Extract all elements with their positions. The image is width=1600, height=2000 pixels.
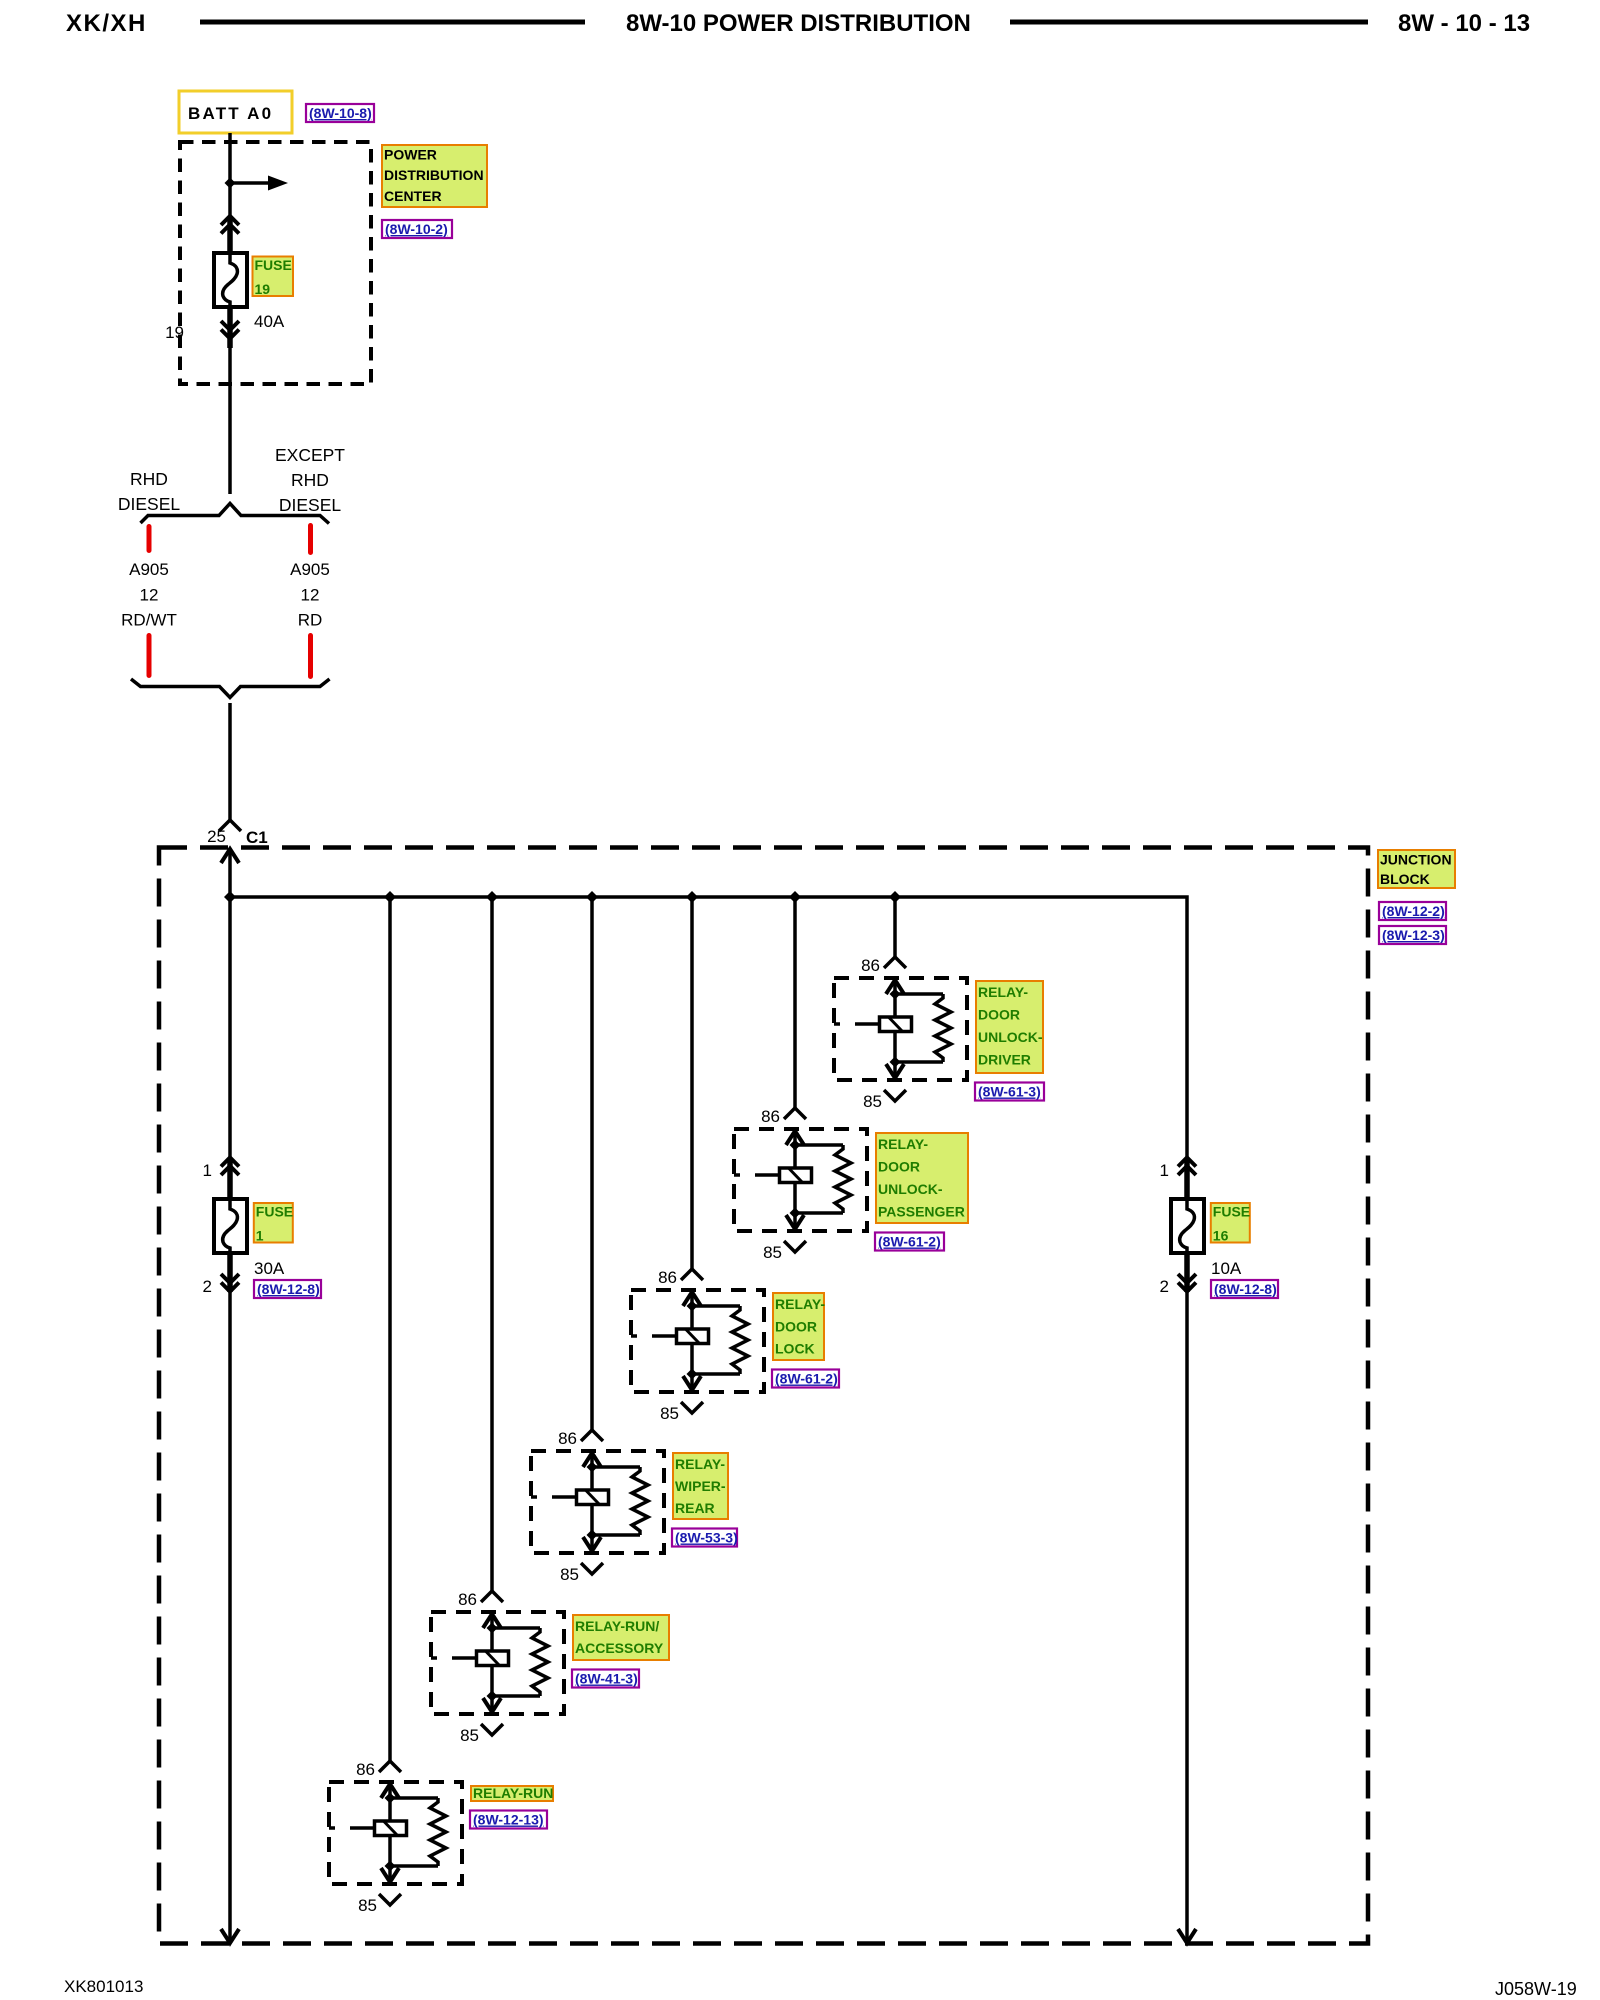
wire A905 12 RD labels [290, 560, 330, 630]
svg-text:A905: A905 [129, 560, 169, 579]
header title left [66, 10, 147, 37]
svg-text:BLOCK: BLOCK [1380, 871, 1430, 887]
svg-text:(8W-41-3): (8W-41-3) [575, 1671, 638, 1687]
wire left branch bottom arrow [221, 1929, 239, 1943]
svg-text:XK801013: XK801013 [64, 1977, 143, 1996]
connector pin 86 of relay K DOOR LOCK [658, 1268, 703, 1287]
label relay K RUN [471, 1785, 553, 1801]
link 8W-12-2 [1379, 902, 1446, 920]
svg-text:12: 12 [140, 586, 159, 605]
svg-text:8W-10 POWER DISTRIBUTION: 8W-10 POWER DISTRIBUTION [626, 10, 971, 37]
wire mark red right upper [308, 523, 313, 555]
svg-text:(8W-61-2): (8W-61-2) [775, 1371, 838, 1387]
label relay K DOOR LOCK [773, 1293, 825, 1360]
svg-text:30A: 30A [254, 1259, 285, 1278]
svg-text:25: 25 [207, 827, 226, 846]
wire bus [230, 897, 1187, 1943]
svg-text:86: 86 [458, 1590, 477, 1609]
svg-text:86: 86 [558, 1429, 577, 1448]
node BATT A0 [179, 91, 292, 133]
connector pin 86 of relay K WIPER REAR [558, 1429, 603, 1448]
label RHD DIESEL [118, 469, 181, 514]
footer drawing code [1495, 1979, 1577, 1999]
wire bus drop to relay K RUN/ACCESSORY [490, 897, 494, 1591]
label relay K RUN/ACCESSORY [573, 1615, 669, 1660]
svg-text:DOOR: DOOR [978, 1007, 1020, 1023]
wire bus drop to relay K DOOR LOCK [690, 897, 694, 1269]
fuse F1 thick lead [227, 1158, 233, 1292]
connector C1 pin 25 [207, 820, 268, 847]
svg-text:DOOR: DOOR [775, 1318, 817, 1334]
svg-text:86: 86 [658, 1268, 677, 1287]
svg-text:EXCEPT: EXCEPT [275, 445, 345, 465]
svg-text:(8W-53-3): (8W-53-3) [675, 1530, 738, 1546]
svg-text:J058W-19: J058W-19 [1495, 1979, 1577, 1999]
label relay K WIPER REAR [673, 1453, 728, 1519]
connector pin 85 of relay K RUN/ACCESSORY [460, 1724, 503, 1745]
relay K UNLOCK DRIVER [834, 978, 967, 1080]
svg-text:UNLOCK-: UNLOCK- [878, 1181, 943, 1197]
fuse F19 [214, 253, 247, 307]
svg-text:FUSE: FUSE [256, 1204, 293, 1220]
svg-text:(8W-12-8): (8W-12-8) [257, 1281, 320, 1297]
fuse F16 pin 2 chevrons [1160, 1274, 1196, 1296]
svg-text:86: 86 [761, 1107, 780, 1126]
link (8W-61-2) of relay K UNLOCK PASSENGER [875, 1233, 944, 1251]
svg-text:C1: C1 [246, 828, 268, 847]
svg-text:RELAY-: RELAY- [675, 1456, 725, 1472]
label JUNCTION BLOCK [1378, 850, 1455, 888]
svg-text:2: 2 [203, 1277, 212, 1296]
pin 19 [165, 323, 184, 342]
svg-text:(8W-61-2): (8W-61-2) [878, 1234, 941, 1250]
wire bus drop to relay K WIPER REAR [590, 897, 594, 1430]
label FUSE 1 [254, 1203, 293, 1244]
connector pin 85 of relay K UNLOCK DRIVER [863, 1090, 906, 1111]
node junction dot PDC [225, 178, 236, 189]
label FUSE 16 [1211, 1203, 1250, 1244]
header page number [1398, 10, 1530, 37]
svg-text:85: 85 [660, 1404, 679, 1423]
value 30A [254, 1259, 285, 1278]
fuse F19 pin chevrons bottom [221, 321, 239, 339]
connector pin 85 of relay K RUN [358, 1894, 401, 1915]
label FUSE 19 [253, 257, 294, 298]
fuse F19 thick lead [227, 216, 233, 348]
svg-text:XK/XH: XK/XH [66, 10, 147, 37]
svg-text:(8W-61-3): (8W-61-3) [978, 1084, 1041, 1100]
wire mark red left lower [147, 633, 152, 678]
relay K DOOR LOCK [631, 1290, 764, 1392]
link 8W-12-8 right [1211, 1280, 1278, 1298]
svg-text:CENTER: CENTER [384, 188, 442, 204]
wire merge brace bottom [131, 679, 330, 698]
svg-text:RD/WT: RD/WT [121, 611, 177, 630]
svg-text:16: 16 [1213, 1228, 1229, 1244]
svg-text:JUNCTION: JUNCTION [1380, 852, 1452, 868]
fuse F1 pin 2 chevrons [203, 1274, 239, 1296]
fuse F16 [1171, 1199, 1204, 1253]
svg-text:85: 85 [863, 1092, 882, 1111]
svg-text:(8W-12-13): (8W-12-13) [473, 1812, 544, 1828]
header rule left [200, 20, 585, 25]
relay K RUN/ACCESSORY [431, 1612, 564, 1714]
label EXCEPT RHD DIESEL [275, 445, 345, 515]
svg-text:RD: RD [298, 611, 323, 630]
header title center [626, 10, 971, 37]
svg-text:REAR: REAR [675, 1500, 715, 1516]
svg-text:86: 86 [356, 1760, 375, 1779]
svg-text:FUSE: FUSE [1213, 1204, 1250, 1220]
connector pin 85 of relay K WIPER REAR [560, 1563, 603, 1584]
svg-text:WIPER-: WIPER- [675, 1478, 726, 1494]
connector pin 86 of relay K RUN/ACCESSORY [458, 1590, 503, 1609]
wire split brace top [141, 504, 330, 524]
svg-text:19: 19 [165, 323, 184, 342]
svg-text:DIESEL: DIESEL [118, 494, 181, 514]
svg-text:40A: 40A [254, 312, 285, 331]
svg-text:86: 86 [861, 956, 880, 975]
connector pin 85 of relay K UNLOCK PASSENGER [763, 1241, 806, 1262]
svg-text:BATT A0: BATT A0 [188, 104, 273, 123]
fuse F1 [214, 1199, 247, 1253]
svg-text:RELAY-: RELAY- [978, 984, 1028, 1000]
svg-text:19: 19 [255, 281, 271, 297]
fuse F16 thick lead [1184, 1158, 1190, 1292]
svg-text:(8W-12-2): (8W-12-2) [1382, 903, 1445, 919]
svg-text:RELAY-: RELAY- [878, 1136, 928, 1152]
link (8W-41-3) of relay K RUN/ACCESSORY [572, 1670, 639, 1688]
fuse F1 pin 1 chevrons [203, 1158, 239, 1181]
fuse F19 pin chevrons top [221, 216, 239, 234]
svg-text:(8W-12-8): (8W-12-8) [1214, 1281, 1277, 1297]
power distribution center box [180, 142, 371, 384]
wire battery feed vertical [228, 133, 232, 494]
svg-text:1: 1 [256, 1228, 264, 1244]
svg-text:DOOR: DOOR [878, 1159, 920, 1175]
svg-text:2: 2 [1160, 1277, 1169, 1296]
wire bus drop to relay K UNLOCK DRIVER [893, 897, 897, 957]
svg-text:85: 85 [560, 1565, 579, 1584]
footer sheet code [64, 1977, 143, 1996]
wire mark red right lower [308, 633, 313, 679]
link (8W-61-3) of relay K UNLOCK DRIVER [975, 1083, 1044, 1101]
svg-text:(8W-10-8): (8W-10-8) [309, 105, 372, 121]
svg-text:PASSENGER: PASSENGER [878, 1204, 965, 1220]
wire merged feed [228, 703, 232, 820]
label relay K UNLOCK DRIVER [976, 981, 1043, 1073]
relay K RUN [329, 1782, 462, 1884]
svg-text:ACCESSORY: ACCESSORY [575, 1640, 664, 1656]
connector pin 86 of relay K UNLOCK DRIVER [861, 956, 906, 975]
svg-text:12: 12 [301, 586, 320, 605]
header rule right [1010, 20, 1368, 25]
connector pin 86 of relay K UNLOCK PASSENGER [761, 1107, 806, 1126]
svg-text:LOCK: LOCK [775, 1341, 815, 1357]
link 8W-10-2 [382, 220, 452, 238]
link 8W-10-8 [306, 104, 374, 122]
svg-text:FUSE: FUSE [255, 257, 292, 273]
relay K UNLOCK PASSENGER [734, 1129, 867, 1231]
link 8W-12-3 [1379, 926, 1446, 944]
link (8W-12-13) of relay K RUN [470, 1811, 547, 1829]
svg-text:POWER: POWER [384, 147, 437, 163]
svg-text:RELAY-: RELAY- [775, 1296, 825, 1312]
svg-text:1: 1 [1160, 1161, 1169, 1180]
link (8W-61-2) of relay K DOOR LOCK [772, 1370, 839, 1388]
connector pin 86 of relay K RUN [356, 1760, 401, 1779]
label relay K UNLOCK PASSENGER [876, 1133, 968, 1223]
svg-text:8W - 10 - 13: 8W - 10 - 13 [1398, 10, 1530, 37]
svg-text:10A: 10A [1211, 1259, 1242, 1278]
svg-text:DISTRIBUTION: DISTRIBUTION [384, 167, 484, 183]
svg-text:A905: A905 [290, 560, 330, 579]
svg-text:85: 85 [460, 1726, 479, 1745]
svg-text:DIESEL: DIESEL [279, 495, 342, 515]
wire mark red left upper [147, 524, 152, 553]
svg-text:RELAY-RUN: RELAY-RUN [473, 1785, 553, 1801]
value 40A [254, 312, 285, 331]
svg-text:UNLOCK-: UNLOCK- [978, 1029, 1043, 1045]
svg-text:1: 1 [203, 1161, 212, 1180]
wire bus drop to relay K RUN [388, 897, 392, 1761]
svg-text:RELAY-RUN/: RELAY-RUN/ [575, 1618, 659, 1634]
svg-text:RHD: RHD [291, 470, 329, 490]
value 10A [1211, 1259, 1242, 1278]
link (8W-53-3) of relay K WIPER REAR [672, 1529, 738, 1547]
wire right branch bottom arrow [1178, 1929, 1196, 1943]
fuse F16 pin 1 chevrons [1160, 1158, 1196, 1181]
wire left branch down [228, 897, 232, 1943]
wire PDC branch arrow [230, 176, 288, 191]
node bus junctions [224, 891, 901, 903]
link 8W-12-8 left [254, 1280, 321, 1298]
wire A905 12 RD/WT labels [121, 560, 177, 630]
svg-text:(8W-10-2): (8W-10-2) [385, 221, 448, 237]
svg-text:RHD: RHD [130, 469, 168, 489]
wire C1 entry arrow [221, 849, 239, 897]
wire bus drop to relay K UNLOCK PASSENGER [793, 897, 797, 1108]
svg-text:85: 85 [358, 1896, 377, 1915]
relay K WIPER REAR [531, 1451, 664, 1553]
connector pin 85 of relay K DOOR LOCK [660, 1402, 703, 1423]
label POWER DISTRIBUTION CENTER [382, 145, 487, 207]
svg-text:(8W-12-3): (8W-12-3) [1382, 927, 1445, 943]
svg-text:85: 85 [763, 1243, 782, 1262]
svg-text:DRIVER: DRIVER [978, 1052, 1031, 1068]
junction block boundary [159, 848, 1368, 1944]
